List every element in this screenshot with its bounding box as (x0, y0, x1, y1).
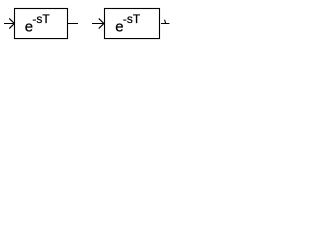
tick on output wire (164, 20, 167, 23)
block U2 delay (105, 9, 160, 39)
label U2 e^-sT (115, 12, 141, 35)
svg-text:-sT: -sT (123, 12, 141, 26)
wire output (161, 23, 169, 25)
svg-text:-sT: -sT (32, 12, 50, 26)
block U1 delay (15, 9, 68, 39)
wire input (4, 23, 14, 25)
wire into block 2 (92, 23, 104, 25)
arrowhead into block 2 (99, 19, 104, 28)
label U1 e^-sT (25, 12, 51, 35)
background (0, 0, 172, 45)
wire out of block 1 (68, 23, 78, 25)
arrowhead into block 1 (10, 19, 15, 28)
